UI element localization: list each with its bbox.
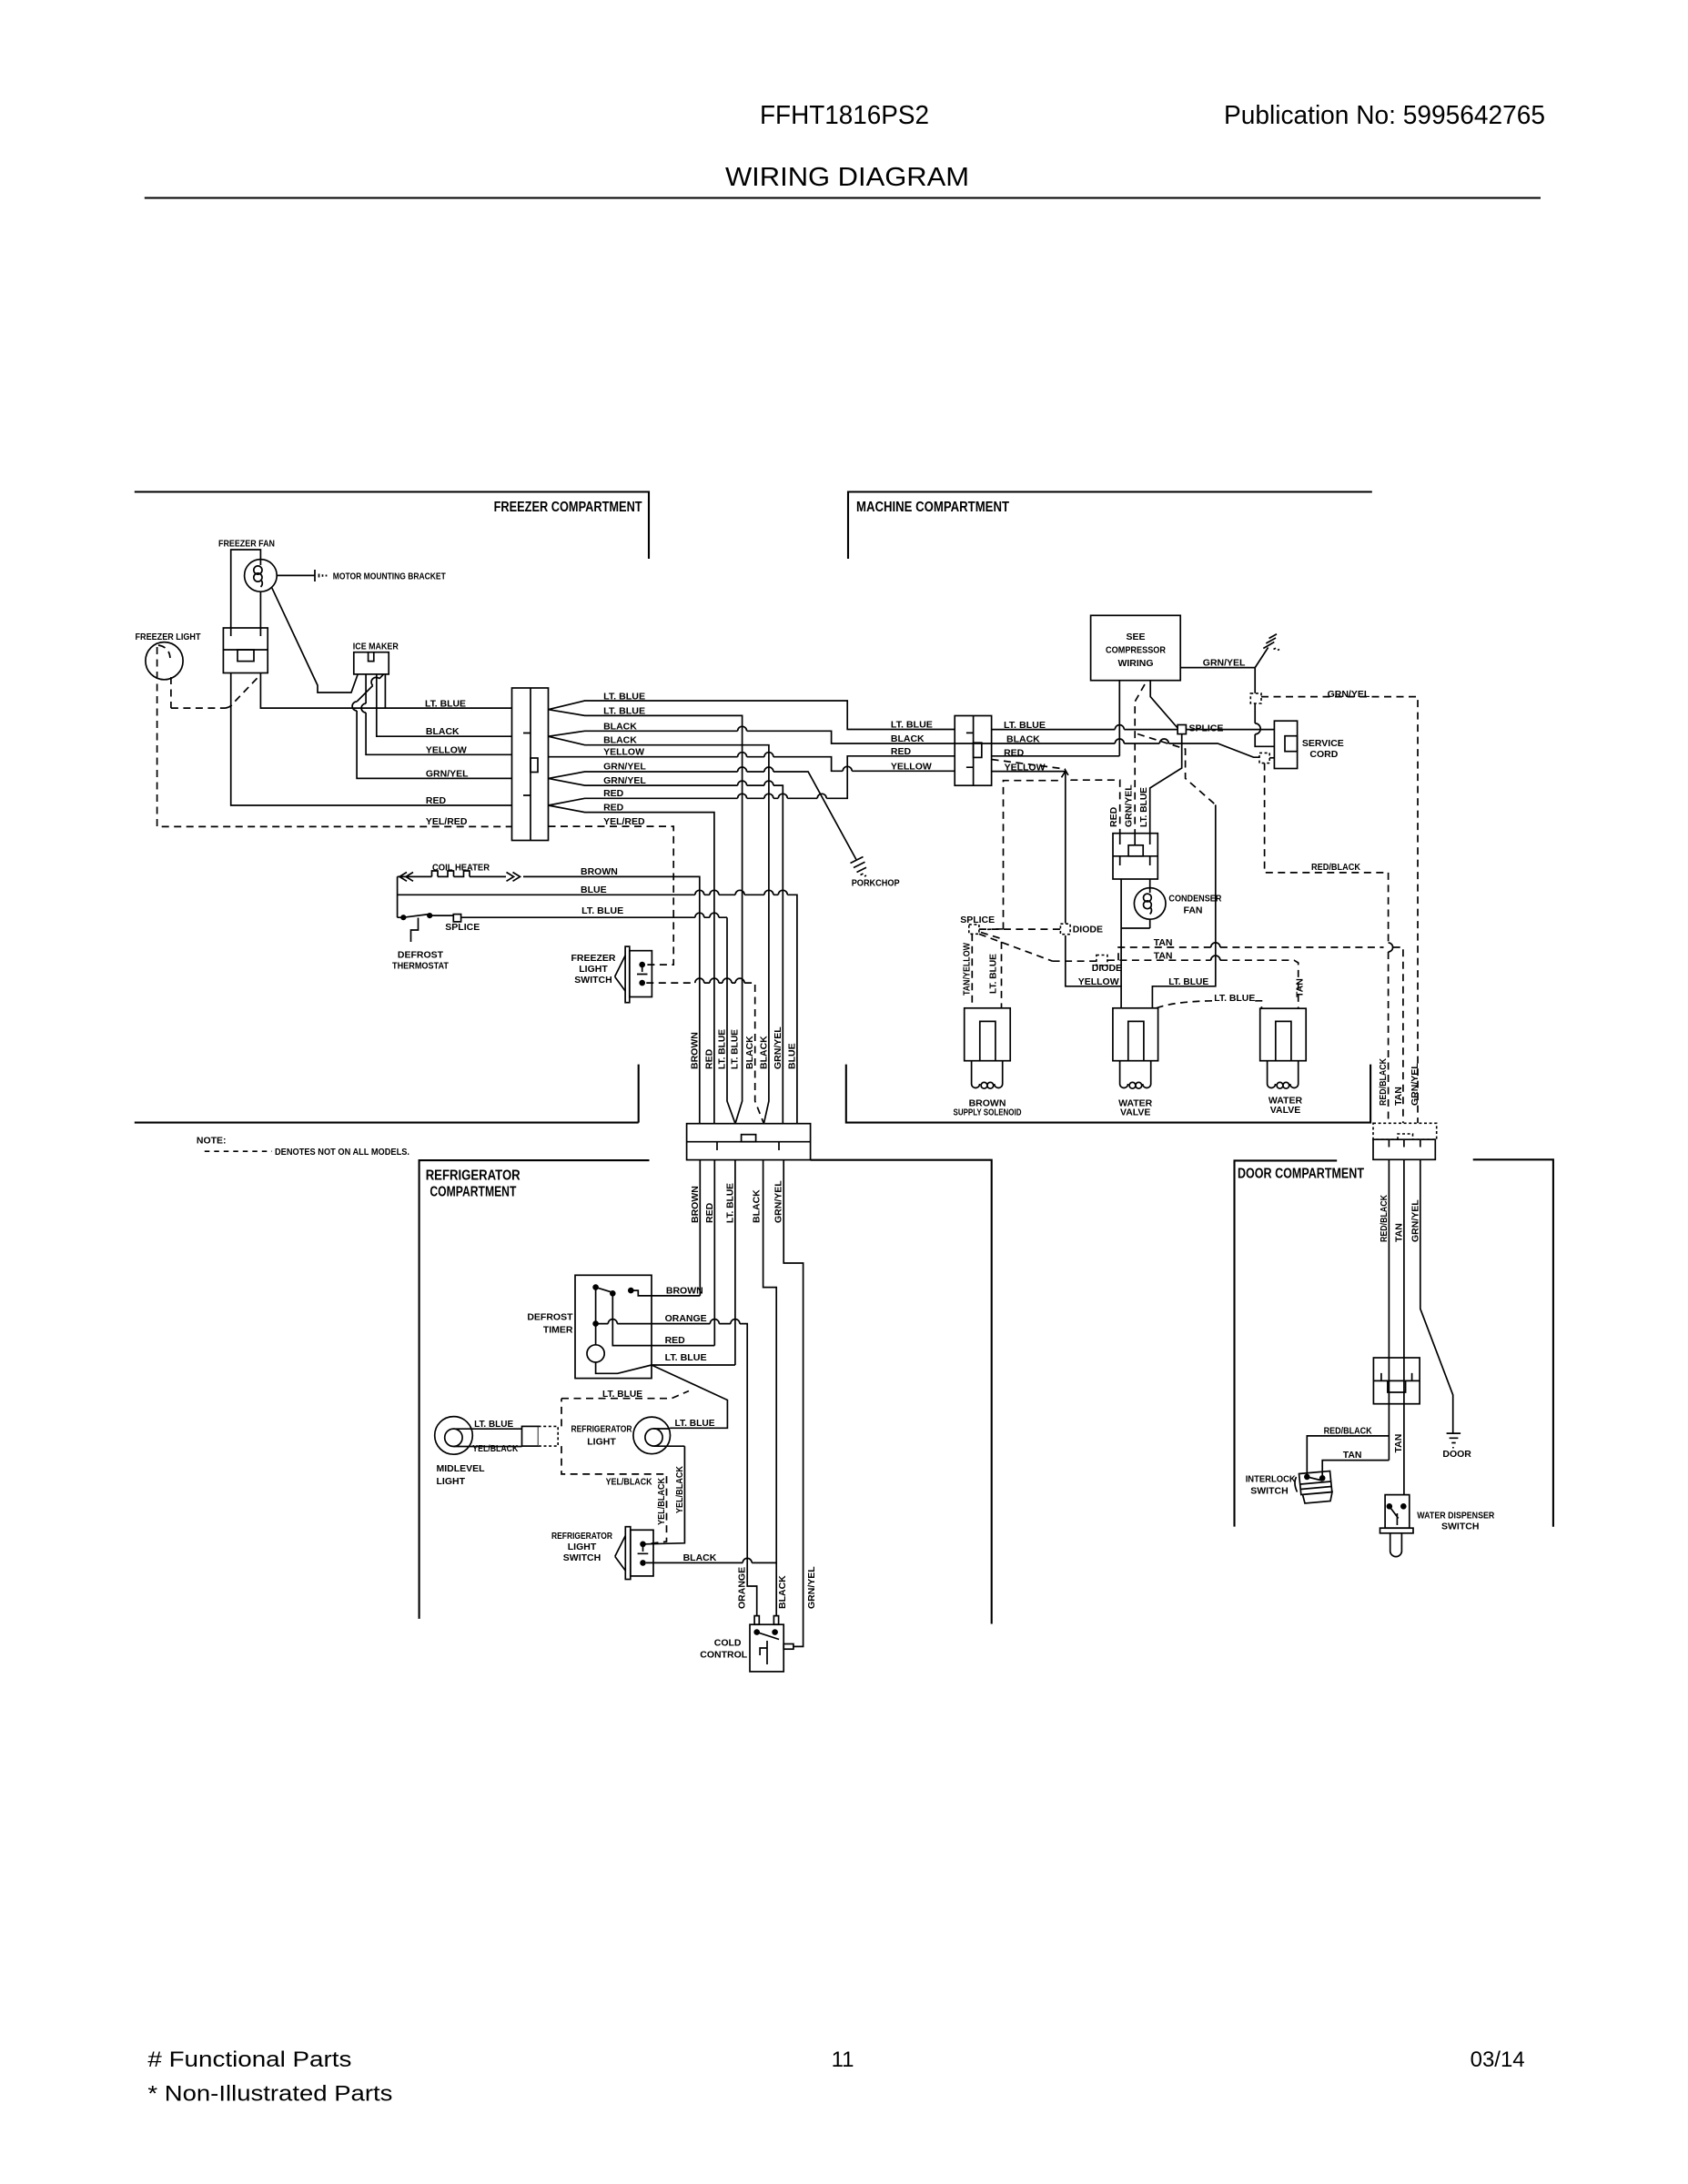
wire lt. blue from timer [652, 1364, 735, 1366]
freezer compartment border [135, 492, 649, 560]
wire lt. blue row to splice and service cord [992, 725, 1275, 730]
midlevel light bulb [435, 1417, 473, 1455]
svg-text:TAN: TAN [1393, 1434, 1404, 1453]
svg-text:YEL/BLACK: YEL/BLACK [674, 1466, 685, 1513]
splice 2 [969, 925, 979, 934]
defrost timer box [575, 1275, 652, 1378]
wire lt. blue: fan housing right pin to connector [260, 673, 511, 709]
wire dashed grn/yel to door rail [1261, 697, 1418, 1124]
machine compartment border [848, 492, 1372, 560]
svg-text:BLUE: BLUE [581, 885, 607, 895]
porkchop ground symbol [851, 857, 867, 873]
svg-text:TAN: TAN [1154, 937, 1173, 948]
svg-text:GRN/YEL: GRN/YEL [773, 1180, 784, 1223]
machine harness connector P2 [955, 716, 991, 786]
door ground symbol [1447, 1433, 1461, 1442]
wire lt. blue heater to solenoid [461, 913, 727, 917]
wire yel/black solid from bulb to switch [645, 1446, 684, 1544]
condenser fan motor [1121, 879, 1150, 986]
svg-text:MACHINE COMPARTMENT: MACHINE COMPARTMENT [856, 500, 1009, 515]
svg-text:YEL/BLACK: YEL/BLACK [472, 1443, 518, 1454]
wire red/black below door connector [1307, 1159, 1389, 1475]
wire black below connector [763, 1160, 777, 1616]
wire yel/red dashed from freezer light to connector [157, 647, 512, 826]
svg-text:RED/BLACK: RED/BLACK [1324, 1426, 1372, 1437]
svg-text:BLACK: BLACK [891, 733, 925, 744]
wire dashed splice to diode [979, 928, 1061, 930]
svg-text:DOOR COMPARTMENT: DOOR COMPARTMENT [1238, 1167, 1364, 1182]
wire red below connector [713, 1160, 715, 1346]
svg-text:GRN/YEL: GRN/YEL [426, 768, 469, 779]
svg-text:RED/BLACK: RED/BLACK [1379, 1195, 1390, 1242]
svg-text:FREEZER FAN: FREEZER FAN [218, 539, 275, 550]
cold control [750, 1624, 783, 1672]
diode 1 [1060, 924, 1070, 934]
svg-text:BLACK: BLACK [603, 721, 637, 732]
compressor box left leg to red row [1118, 681, 1120, 756]
svg-text:CONDENSER: CONDENSER [1168, 894, 1221, 905]
svg-text:TAN: TAN [1393, 1087, 1404, 1106]
svg-text:BROWN: BROWN [689, 1032, 700, 1069]
wire dashed splice to lt. blue valve line [1137, 734, 1216, 805]
door connector [1373, 1139, 1435, 1159]
wire dashed tan 1 to door rail [1118, 947, 1403, 1123]
svg-text:RED: RED [603, 788, 624, 799]
wire blue to bundle [398, 876, 797, 1123]
door connector shroud dashed [1373, 1123, 1437, 1139]
bullet connector grn/yel [1250, 693, 1261, 703]
chassis ground hatches [1255, 648, 1268, 668]
svg-text:LIGHT: LIGHT [579, 964, 608, 975]
svg-text:ORANGE: ORANGE [737, 1567, 748, 1609]
wire brown to timer [631, 1290, 700, 1296]
svg-text:BROWN: BROWN [666, 1286, 703, 1297]
svg-text:COMPARTMENT: COMPARTMENT [430, 1185, 516, 1200]
svg-text:CONTROL: CONTROL [700, 1650, 747, 1661]
svg-text:RED: RED [1108, 806, 1119, 827]
wire lt. blue row 2 to bundle [549, 710, 743, 1124]
wire black from switch to cold control [646, 1558, 776, 1562]
wire dashed tan 2 through diode 2 [1053, 960, 1299, 1008]
svg-text:DIODE: DIODE [1073, 925, 1103, 935]
svg-text:SPLICE: SPLICE [960, 915, 995, 925]
door compartment border [1235, 1160, 1338, 1526]
svg-text:LT. BLUE: LT. BLUE [730, 1029, 741, 1069]
svg-text:GRN/YEL: GRN/YEL [773, 1026, 783, 1069]
defrost thermostat [400, 915, 406, 920]
svg-text:03/14: 03/14 [1471, 2047, 1525, 2072]
wire red: fan housing left pin to connector [231, 673, 512, 806]
svg-text:11: 11 [832, 2047, 854, 2072]
svg-text:WIRING: WIRING [1117, 658, 1153, 669]
wire red row 1 to machine red [549, 756, 955, 805]
svg-text:FAN: FAN [1184, 905, 1203, 916]
freezer light bulb [146, 642, 183, 680]
ice maker pin 3 wire to black [377, 674, 512, 736]
svg-text:RED: RED [665, 1335, 686, 1346]
svg-text:YELLOW: YELLOW [891, 761, 932, 772]
wire lt. blue splice to relay [1150, 734, 1182, 834]
wire grn/yel below connector [783, 1160, 803, 1647]
svg-text:VALVE: VALVE [1120, 1107, 1150, 1118]
svg-text:BLACK: BLACK [744, 1036, 755, 1069]
svg-text:GRN/YEL: GRN/YEL [806, 1566, 817, 1609]
svg-text:LT. BLUE: LT. BLUE [581, 905, 623, 916]
svg-text:TAN: TAN [1343, 1450, 1362, 1461]
svg-text:RED/BLACK: RED/BLACK [1311, 862, 1360, 873]
svg-text:TAN: TAN [1295, 978, 1306, 997]
svg-text:RED: RED [426, 795, 447, 806]
wire dashed splice to tan diagonal [979, 934, 1053, 961]
svg-text:YELLOW: YELLOW [603, 746, 644, 757]
svg-text:DEFROST: DEFROST [398, 950, 444, 961]
svg-text:SEE: SEE [1126, 632, 1145, 642]
svg-text:RED: RED [891, 746, 912, 757]
svg-text:LT. BLUE: LT. BLUE [724, 1183, 735, 1223]
interlock switch [1304, 1474, 1310, 1481]
svg-text:CORD: CORD [1309, 749, 1338, 760]
ice maker connector [354, 652, 389, 674]
svg-text:COMPRESSOR: COMPRESSOR [1106, 645, 1166, 656]
svg-text:FREEZER: FREEZER [571, 953, 615, 964]
ice maker pin 4 wire to grn/yel [352, 674, 511, 779]
svg-text:RED/BLACK: RED/BLACK [1378, 1058, 1389, 1106]
svg-text:GRN/YEL: GRN/YEL [1124, 784, 1135, 827]
freezer harness connector P1 [512, 688, 549, 841]
svg-text:NOTE:: NOTE: [197, 1136, 227, 1147]
splice on lt. blue [1178, 725, 1186, 734]
wire dashed lt. blue valve1 to valve2 [1157, 1001, 1262, 1008]
wire red row right of connector [992, 755, 1120, 757]
svg-text:SWITCH: SWITCH [1250, 1485, 1288, 1496]
svg-text:REFRIGERATOR: REFRIGERATOR [551, 1531, 612, 1542]
svg-text:BLACK: BLACK [777, 1575, 788, 1609]
wire lt. blue below connector [734, 1160, 736, 1365]
svg-text:LT. BLUE: LT. BLUE [1214, 993, 1255, 1004]
svg-text:BLUE: BLUE [786, 1043, 797, 1069]
svg-text:VALVE: VALVE [1270, 1105, 1300, 1116]
door harness connector P5 [1373, 1358, 1420, 1404]
svg-text:LIGHT: LIGHT [587, 1437, 616, 1448]
svg-text:LT. BLUE: LT. BLUE [603, 706, 645, 717]
wire yel/red dashed to freezer light switch [549, 826, 674, 965]
compressor box right leg to splice [1150, 681, 1178, 728]
midlevel mating connector dashed [539, 1426, 559, 1446]
svg-text:COLD: COLD [714, 1638, 742, 1649]
svg-text:BROWN: BROWN [581, 866, 618, 877]
svg-text:BLACK: BLACK [759, 1036, 770, 1069]
svg-text:WATER DISPENSER: WATER DISPENSER [1417, 1510, 1494, 1521]
svg-text:TAN/YELLOW: TAN/YELLOW [961, 943, 972, 996]
svg-text:LIGHT: LIGHT [568, 1542, 597, 1552]
svg-text:ORANGE: ORANGE [665, 1313, 707, 1324]
wire black row 1 to machine [549, 726, 1260, 757]
water valve 2 connector [1260, 1008, 1307, 1061]
svg-text:GRN/YEL: GRN/YEL [1203, 658, 1246, 669]
svg-text:WIRING DIAGRAM: WIRING DIAGRAM [725, 163, 969, 192]
grn/yel vertical to bullet and service cord [1255, 668, 1274, 747]
wire brown below connector [699, 1160, 701, 1296]
wire fan motor to ice maker pin 1 [272, 588, 358, 693]
water dispenser switch [1385, 1495, 1410, 1529]
wire dashed red/black from bullet down and right [1265, 763, 1389, 1124]
svg-text:YELLOW: YELLOW [426, 744, 467, 755]
svg-text:SWITCH: SWITCH [1441, 1521, 1479, 1532]
svg-text:THERMOSTAT: THERMOSTAT [392, 961, 450, 972]
svg-text:RED: RED [603, 802, 624, 813]
water valve 1 connector [1113, 1008, 1158, 1061]
svg-text:LIGHT: LIGHT [437, 1476, 466, 1487]
refrigerator light switch [625, 1527, 631, 1580]
wire tan below door connector [1403, 1159, 1405, 1494]
refrigerator compartment border [419, 1160, 650, 1619]
wire red from timer [612, 1293, 714, 1345]
see compressor wiring box [1091, 615, 1181, 680]
svg-text:BLACK: BLACK [426, 726, 460, 737]
svg-text:RED: RED [703, 1048, 714, 1069]
wire grn/yel below door connector [1420, 1159, 1453, 1433]
wire yellow row to diode and water valve [992, 772, 1122, 1008]
svg-text:YEL/BLACK: YEL/BLACK [606, 1476, 652, 1487]
svg-text:DEFROST: DEFROST [527, 1312, 573, 1323]
diode 2 [1097, 955, 1107, 966]
wire lt. blue to water valve [1152, 804, 1215, 1007]
wire dashed red to relay [992, 760, 1120, 834]
motor mounting bracket [277, 570, 315, 581]
wire dashed yellow branch to splice [970, 772, 1066, 930]
svg-text:REFRIGERATOR: REFRIGERATOR [426, 1168, 521, 1184]
splice on lt. blue heater wire [453, 915, 460, 922]
wire grn/yel row 2 to bundle [549, 778, 783, 1123]
svg-text:PORKCHOP: PORKCHOP [852, 878, 900, 889]
wire tan horizontal to interlock [1322, 1461, 1389, 1479]
wire black row 2 to bundle [549, 736, 769, 1123]
wire dashed lt. blue to solenoid [981, 933, 1002, 1008]
svg-text:ICE MAKER: ICE MAKER [353, 642, 399, 652]
wire grn/yel from compressor box [1180, 667, 1255, 669]
svg-text:INTERLOCK: INTERLOCK [1246, 1474, 1296, 1485]
service cord [1274, 721, 1297, 768]
center harness connector P3 [687, 1124, 811, 1160]
wire lt. blue diagonal to refrigerator light [652, 1365, 727, 1428]
svg-text:SERVICE: SERVICE [1302, 738, 1344, 749]
svg-text:LT. BLUE: LT. BLUE [665, 1352, 707, 1363]
wire dashed freezer light to fan housing [171, 674, 261, 708]
svg-text:BLACK: BLACK [683, 1552, 717, 1563]
svg-text:SUPPLY SOLENOID: SUPPLY SOLENOID [954, 1107, 1022, 1118]
svg-text:COIL HEATER: COIL HEATER [432, 863, 490, 874]
svg-text:SPLICE: SPLICE [1189, 723, 1224, 733]
title rule [145, 197, 1541, 198]
svg-text:BLACK: BLACK [603, 734, 637, 745]
svg-text:LT. BLUE: LT. BLUE [891, 720, 933, 731]
svg-text:FFHT1816PS2: FFHT1816PS2 [760, 101, 929, 130]
wire lt. blue row 1 to machine [549, 701, 955, 730]
svg-text:BROWN: BROWN [690, 1186, 701, 1223]
svg-text:REFRIGERATOR: REFRIGERATOR [571, 1424, 632, 1435]
bullet connector black [1259, 753, 1269, 763]
freezer fan duct [231, 550, 261, 628]
svg-text:SWITCH: SWITCH [563, 1552, 601, 1563]
wire dashed yel/black from midlevel connector [561, 1446, 667, 1544]
svg-text:LT. BLUE: LT. BLUE [602, 1389, 642, 1400]
svg-text:GRN/YEL: GRN/YEL [1410, 1063, 1420, 1106]
svg-text:YEL/BLACK: YEL/BLACK [656, 1478, 667, 1525]
wire dashed black from freezer light switch to bundle [646, 983, 763, 1124]
svg-text:TAN: TAN [1393, 1223, 1404, 1242]
svg-text:MOTOR MOUNTING BRACKET: MOTOR MOUNTING BRACKET [333, 571, 446, 582]
svg-text:FREEZER LIGHT: FREEZER LIGHT [136, 632, 202, 642]
svg-text:GRN/YEL: GRN/YEL [1410, 1199, 1420, 1242]
svg-text:# Functional Parts: # Functional Parts [147, 2047, 351, 2072]
svg-text:MIDLEVEL: MIDLEVEL [437, 1463, 486, 1474]
brown supply solenoid connector [965, 1008, 1011, 1061]
freezer light switch [625, 946, 630, 1003]
svg-text:DENOTES NOT ON ALL MODELS.: DENOTES NOT ON ALL MODELS. [275, 1147, 409, 1158]
svg-text:SWITCH: SWITCH [574, 975, 612, 986]
svg-text:* Non-Illustrated Parts: * Non-Illustrated Parts [147, 2082, 392, 2107]
svg-text:LT. BLUE: LT. BLUE [474, 1419, 513, 1430]
coil heater element and brown wire [398, 871, 700, 1124]
compressor relay box [1113, 834, 1157, 879]
ice maker pin 4 stub to lt. blue [384, 674, 386, 708]
freezer fan motor housing [223, 628, 268, 673]
wire red row 2 to bundle [549, 805, 714, 1124]
svg-text:GRN/YEL: GRN/YEL [603, 762, 646, 773]
svg-text:BLACK: BLACK [1006, 734, 1040, 745]
wire grn/yel row 1 to porkchop [549, 767, 856, 860]
svg-text:DIODE: DIODE [1092, 963, 1122, 974]
svg-text:LT. BLUE: LT. BLUE [1168, 976, 1208, 987]
svg-text:YEL/RED: YEL/RED [426, 816, 468, 827]
svg-text:LT. BLUE: LT. BLUE [603, 691, 645, 702]
svg-text:GRN/YEL: GRN/YEL [603, 775, 646, 786]
svg-text:LT. BLUE: LT. BLUE [1138, 787, 1149, 827]
svg-text:YELLOW: YELLOW [1078, 976, 1119, 987]
svg-text:GRN/YEL: GRN/YEL [1328, 689, 1370, 700]
svg-text:SPLICE: SPLICE [445, 922, 480, 933]
svg-text:RED: RED [704, 1202, 715, 1223]
defrost timer contacts [592, 1284, 599, 1290]
svg-text:YEL/RED: YEL/RED [603, 816, 645, 827]
svg-text:Publication No: 5995642765: Publication No: 5995642765 [1224, 101, 1545, 130]
svg-text:BLACK: BLACK [752, 1189, 763, 1223]
freezer fan motor M1 [245, 560, 278, 592]
svg-text:TIMER: TIMER [543, 1325, 573, 1336]
svg-text:LT. BLUE: LT. BLUE [425, 698, 466, 709]
svg-text:LT. BLUE: LT. BLUE [675, 1418, 715, 1429]
svg-text:TAN: TAN [1154, 950, 1173, 961]
coil heater strain arrows [399, 873, 521, 882]
wire orange from timer [596, 1319, 757, 1616]
svg-text:DOOR: DOOR [1442, 1449, 1471, 1460]
defrost timer motor [595, 1288, 597, 1345]
wire dashed tan/yellow to solenoid [971, 934, 973, 1008]
wire dashed grn/yel compressor to relay [1135, 684, 1145, 834]
wire dashed lt. blue from midlevel connector [561, 1391, 689, 1427]
svg-text:LT. BLUE: LT. BLUE [988, 954, 999, 994]
svg-text:FREEZER COMPARTMENT: FREEZER COMPARTMENT [494, 500, 642, 515]
ice maker pin 2 wire to yellow [361, 674, 511, 754]
refrigerator light bulb [633, 1417, 671, 1454]
svg-text:LT. BLUE: LT. BLUE [717, 1029, 728, 1069]
wire yellow to machine [549, 753, 955, 772]
